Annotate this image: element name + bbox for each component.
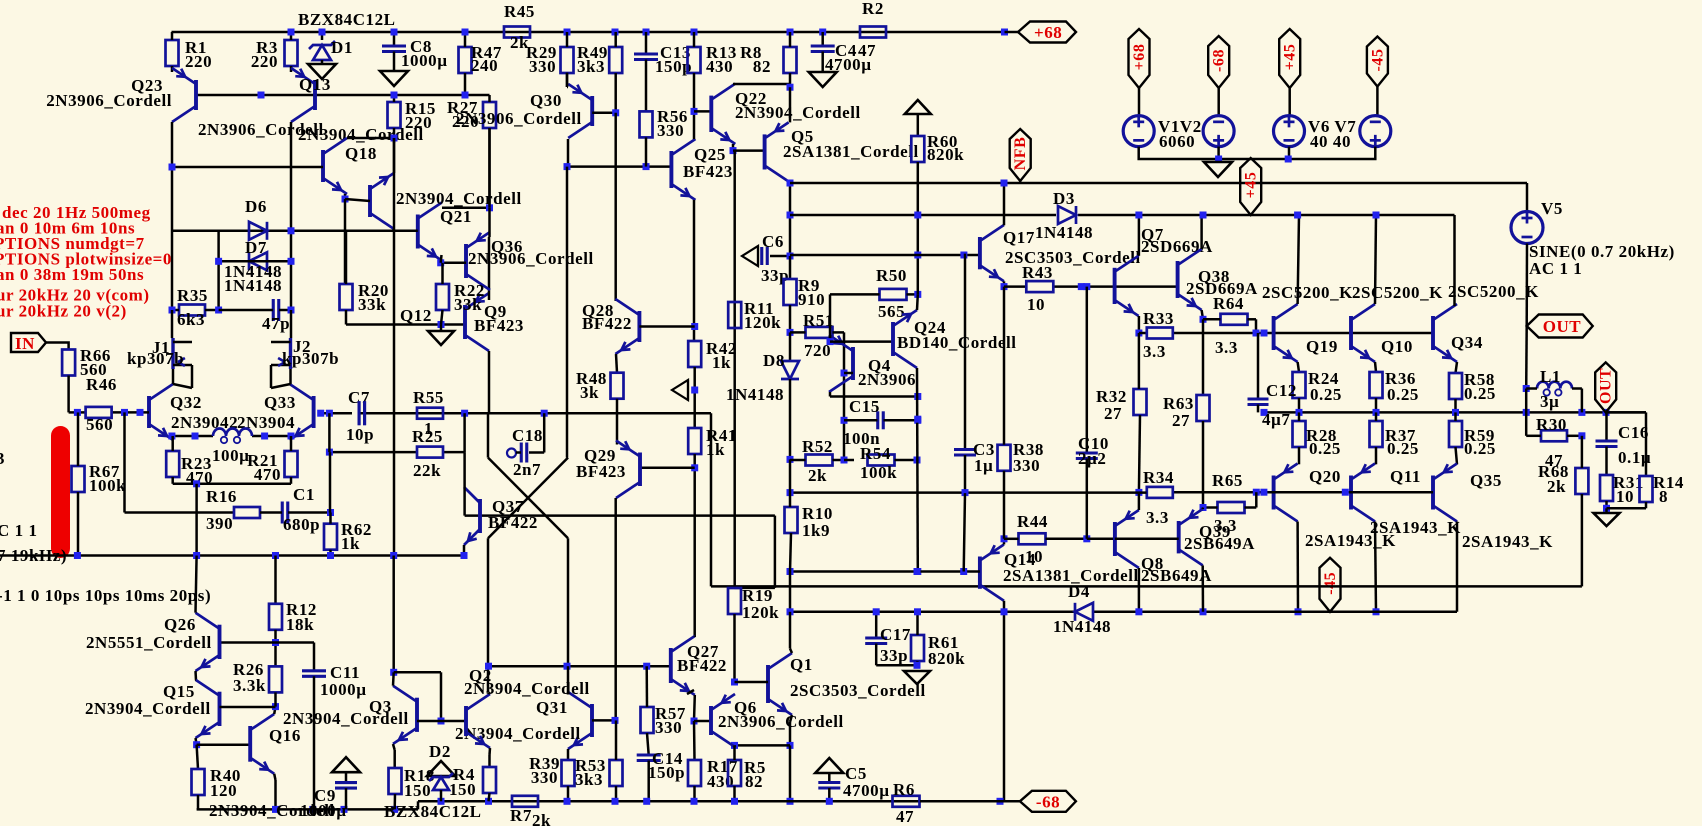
svg-text:C6: C6 [762,232,784,251]
resistor R53 [610,760,623,786]
wire R29 to Q30 emitter [567,86,568,89]
wire Q36 base [441,262,466,265]
svg-text:430: 430 [707,772,734,791]
inductor 100u between sources [213,429,252,437]
svg-text:0.1µ: 0.1µ [1618,448,1651,467]
svg-text:2k: 2k [532,811,551,826]
wire IN to R66 [46,343,69,350]
resistor R35 [179,305,205,316]
transistor Q8 2SB649A [1113,522,1117,556]
sources bottom wire [1139,147,1376,159]
capacitor C7 [357,401,360,425]
wire x615 down to Q28 [614,113,617,301]
wire Q18 emitter down [344,194,347,199]
junction R67 top [74,409,81,416]
svg-text:C17: C17 [880,625,911,644]
svg-text:120k: 120k [742,603,779,622]
svg-text:2SA1943_K: 2SA1943_K [1462,532,1553,551]
svg-text:330: 330 [1013,456,1040,475]
resistor R48 [611,373,624,399]
junction [564,163,571,170]
svg-text:2N3904_Cordell: 2N3904_Cordell [85,699,211,718]
junction tail [193,480,200,487]
wire Q27 collector [693,635,696,638]
resistor R14 [1640,476,1653,502]
wire Q22 base [694,110,711,113]
svg-text:Q18: Q18 [345,144,377,163]
wire V5 down [1525,244,1528,327]
svg-text:D6: D6 [245,197,267,216]
svg-text:Q17: Q17 [1003,228,1035,247]
svg-text:3.3: 3.3 [1143,342,1166,361]
svg-text:-45: -45 [1369,49,1386,72]
ground below Q12 row [440,325,443,332]
transistor Q2 2N3904 [464,706,468,736]
wire Q36 to Q9 [488,237,491,293]
transistor Q28 BF422 [637,311,641,342]
transistor Q1 2SC3503 [766,665,770,703]
svg-text:22k: 22k [413,461,441,480]
-68 flag vertical [1208,36,1229,88]
svg-text:Q21: Q21 [440,207,472,226]
svg-text:1k: 1k [706,440,725,459]
wire feedback bus corner x=711 [710,413,713,586]
bottom bus2 y=809.4 [197,808,418,811]
resistor R66 [62,350,75,376]
wire Q4 collector [829,392,832,397]
ground below C8 [380,71,408,86]
svg-text:R14: R14 [1653,473,1684,492]
svg-text:470: 470 [254,465,281,484]
ground below R61 [904,671,930,684]
+68 flag [1001,29,1008,36]
junction R54 right [914,457,921,464]
wire x568 lower [567,538,570,666]
diode D2 zener with ground [427,761,455,776]
resistor R56 [640,111,653,137]
diode D3 [1058,206,1076,224]
svg-text:R52: R52 [802,437,833,456]
wire Q16 emitter [274,774,275,780]
wire R52 to R54 [844,459,854,462]
junction R34 left [1135,489,1142,496]
svg-text:OUT: OUT [1543,317,1582,336]
wire y=167 mid rail [567,165,671,168]
svg-text:R46: R46 [86,375,117,394]
ground below sources [1204,162,1232,177]
wire Q1 emitter [790,715,792,722]
junction D7 right [288,258,295,265]
svg-text:27: 27 [1172,411,1190,430]
resistor R16 [234,507,260,518]
svg-text:2N3904_Cordell: 2N3904_Cordell [396,189,522,208]
svg-text:240: 240 [471,56,498,75]
junction C6 [787,253,794,260]
transistor Q6 2N3906 PNP [709,706,713,735]
wire Q10 collector [1375,215,1376,304]
transistor Q32 [147,396,151,428]
svg-text:R33: R33 [1143,309,1174,328]
svg-text:3: 3 [0,449,5,468]
junction D7 left [215,258,222,265]
junction R53 top [612,717,619,724]
resistor R6 [893,796,920,807]
wire x393 long vertical [393,143,396,556]
resistor R50 [880,289,907,300]
junction [787,742,794,749]
capacitor C4 [821,32,824,46]
transistor Q11 2SA1943 [1349,476,1353,510]
svg-text:2k: 2k [808,466,827,485]
svg-text:L1: L1 [1540,367,1561,386]
junction rail215 [1135,212,1142,219]
svg-text:33k: 33k [358,295,386,314]
junction Q6 base [691,718,698,725]
bottom bus right y=801.3 [418,800,1000,803]
junction R50 right [914,291,921,298]
wire Q28 base [639,325,694,328]
wire Q39 emitter [1201,508,1204,510]
capacitor C3 [964,254,967,450]
wire Q9 base row [441,323,465,326]
svg-text:+45: +45 [1243,172,1260,199]
-45 flag bottom [1320,558,1341,612]
svg-text:330: 330 [531,768,558,787]
svg-text:1k9: 1k9 [802,521,830,540]
resistor R65 [1218,502,1245,513]
svg-text:150p: 150p [648,763,685,782]
resistor R42 [688,341,701,367]
resistor R36 [1370,372,1383,398]
wire Q14 emitter [1003,539,1006,545]
resistor R19 [728,588,741,614]
capacitor C11 [302,669,326,672]
svg-text:Q1: Q1 [790,655,813,674]
svg-text:Q11: Q11 [1390,467,1421,486]
svg-text:330: 330 [655,718,682,737]
svg-text:kp307b: kp307b [127,349,184,368]
junction R26 bottom [272,703,279,710]
transistor Q19 2SC5200 [1272,316,1276,350]
resistor R51 [806,327,833,338]
resistor R21 [285,451,298,477]
wire Q23 collector down [171,122,174,310]
junction R64 left [1200,316,1207,323]
zener diode D1 [321,32,324,40]
svg-text:3k: 3k [580,383,599,402]
resistor R2 [860,27,886,38]
svg-text:R35: R35 [177,286,208,305]
svg-text:18k: 18k [286,615,314,634]
svg-text:BF422: BF422 [488,513,538,532]
wire Q31 base [592,719,615,722]
svg-text:D2: D2 [429,742,451,761]
svg-text:R65: R65 [1212,471,1243,490]
wire R41 bottom junction [693,454,696,637]
wire Q35 collector [1456,522,1459,612]
transistor Q17 2SC3503 [978,237,982,269]
wire x567 down [566,73,569,87]
wire C11 branch [276,641,315,644]
junction Q5 base [730,147,737,154]
svg-text:D8: D8 [763,351,785,370]
junction C3 top [960,252,967,259]
red probe marker [51,426,70,558]
resistor R61 [911,635,924,661]
wire R40 column [197,745,198,769]
transistor pair of Q18 [368,185,372,217]
svg-text:2SC5200_K: 2SC5200_K [1448,282,1539,301]
wire to V1 [1138,88,1141,116]
svg-text:-45: -45 [1322,572,1339,595]
svg-text:2N3904_Cordell: 2N3904_Cordell [283,709,409,728]
resistor R26 [269,666,282,692]
wire Q3 emitter [393,744,395,750]
resistor R32 [1134,389,1147,415]
svg-text:4700µ: 4700µ [843,781,890,800]
junction ground Q12 [438,321,445,328]
resistor R57 [641,707,654,733]
junction 47p right [288,307,295,314]
junction R3 top [288,29,295,36]
svg-text:2N3906_Cordell: 2N3906_Cordell [718,712,844,731]
svg-text:1000µ: 1000µ [320,680,367,699]
wire Q26 emitter to Q15 [194,671,197,680]
source V7 [1360,116,1391,147]
OUT flag 1 [1527,315,1593,338]
svg-text:D7: D7 [245,238,267,257]
resistor R39 [562,760,575,786]
wire Q16 collector [274,707,275,714]
svg-text:BF423: BF423 [683,162,733,181]
resistor R64 [1221,314,1248,325]
svg-text:3k3: 3k3 [577,57,605,76]
transistor Q29 BF423 [638,453,642,487]
rail y=586.4 NFB lower [711,585,1582,588]
svg-text:430: 430 [706,57,733,76]
junction driver row [914,252,921,259]
source V2 [1203,116,1234,147]
junction Q24 base [827,338,834,345]
resistor R3 [285,40,298,66]
wire y=230.8 bus [172,230,418,233]
svg-text:R16: R16 [206,487,237,506]
source V1 [1123,116,1154,147]
junction R8 bottom [787,84,794,91]
svg-text:2SB649A: 2SB649A [1141,566,1212,585]
svg-text:120: 120 [210,781,237,800]
svg-text:150: 150 [449,780,476,799]
svg-text:Q10: Q10 [1381,337,1413,356]
transistor Q3 2N3904 [415,698,419,732]
wire Q25 emitter down [693,200,696,341]
wire Q14 collector [1003,601,1006,802]
svg-text:2n7: 2n7 [513,460,541,479]
svg-text:10: 10 [1027,295,1045,314]
svg-text:R64: R64 [1213,294,1244,313]
transistor Q9 BF423 [463,305,467,339]
svg-text:820k: 820k [928,649,965,668]
wire Q6 collector [733,745,736,747]
resistor R18 [389,768,402,794]
svg-text:R25: R25 [412,427,443,446]
wire Q8 collector [1138,568,1141,612]
wire Q21 emitter to Q36 base [439,255,442,263]
resistor R8 [784,47,797,73]
resistor R17 [688,760,701,786]
svg-text:R7: R7 [510,806,532,825]
wire Q4 emitter [829,335,832,340]
svg-text:33p: 33p [880,646,908,665]
svg-text:Q33: Q33 [264,393,296,412]
svg-text:BZX84C12L: BZX84C12L [298,10,396,29]
wire to V2 [1217,88,1220,116]
svg-text:-1 1 0 10ps 10ps 10ms 20ps): -1 1 0 10ps 10ps 10ms 20ps) [0,586,211,605]
junction R51 left [787,329,794,336]
resistor R37 [1370,421,1383,447]
svg-text:kp307b: kp307b [282,349,339,368]
capacitor C18 [520,443,523,463]
wire Q2 base [441,720,466,723]
wire Q22 collector to R8 [733,83,790,86]
wire Q9 emitter chain x488 [488,293,491,300]
emitter row Q32/Q33 [172,435,213,438]
junction [1373,212,1380,219]
svg-text:R50: R50 [876,266,907,285]
svg-text:565: 565 [878,302,905,321]
svg-text:2SA1381_Cordell: 2SA1381_Cordell [783,142,919,161]
wire Q5 collector down rails [789,182,792,257]
resistor R13 [688,47,701,73]
svg-text:2SC5200_K: 2SC5200_K [1262,283,1353,302]
junction arrow port [691,387,698,394]
svg-text:2N3904_Cordell: 2N3904_Cordell [298,125,424,144]
resistor R68 [1575,468,1588,494]
wire R51 right down [843,332,846,460]
Q14 base rail y=571.5 [790,570,980,573]
IN flag [11,333,46,352]
resistor R49 [609,47,622,73]
junction R15 top [391,92,398,99]
capacitor C6 [760,247,763,265]
svg-text:C9: C9 [314,786,336,805]
wire Q39 base [1115,538,1179,541]
junction Q28 base [691,323,698,330]
wire R16 branch [123,412,126,512]
junction C15 right [914,417,921,424]
transistor Q22 NPN [709,96,713,132]
junction [1200,212,1207,219]
junction R13 top [691,29,698,36]
wire R20 bottom row [345,310,348,325]
transistor Q15 2N3904 [218,692,222,726]
+45 flag vertical [1279,29,1300,88]
wire Q37 emitter [463,545,466,556]
junction C8 top [391,29,398,36]
wire second rail y=95 [196,94,490,97]
wire Q15 base [220,706,276,709]
capacitor C12 [1257,333,1260,399]
svg-text:2SC5200_K: 2SC5200_K [1352,283,1443,302]
VAS emitter row y=286.6 [1004,285,1027,288]
wire Q16 base [197,743,251,746]
wire input row y=412 [77,411,85,414]
junction [1295,608,1302,615]
transistor Q7 2SD669A [1113,268,1117,304]
svg-text:3.3: 3.3 [1146,508,1169,527]
wire to R17 [693,721,696,760]
wire feedback row y=413 [321,412,711,415]
resistor R30 [1541,430,1567,441]
resistor R45 [504,27,530,38]
junction Q3/Q2 base [438,718,445,725]
svg-text:R30: R30 [1536,415,1567,434]
junction R29 top [564,29,571,36]
junction R8 top [787,29,794,36]
resistor R11 [728,302,741,328]
transistor Q26 2N5551 [218,625,222,659]
svg-text:220: 220 [185,52,212,71]
junction D6 right [288,227,295,234]
+68 flag vertical [1129,29,1150,88]
svg-text:Q13: Q13 [299,75,331,94]
rail y=215 [790,214,1056,217]
svg-text:R6: R6 [893,780,915,799]
transistor Q37 BF422 [478,499,482,533]
svg-text:0.25: 0.25 [1310,385,1342,404]
svg-text:Q32: Q32 [170,393,202,412]
resistor R63 [1197,395,1210,421]
wire emitter row to R5 [735,744,791,747]
wire R25 row [329,451,417,454]
junction C4 top [819,29,826,36]
wire Q29 emitter down to Q31 base [614,498,617,720]
ground below R31 [1605,508,1608,513]
junction R65 left [1200,504,1207,511]
svg-text:R43: R43 [1022,263,1053,282]
junction base rail [258,92,265,99]
resistor R55 [417,408,443,419]
wire Q30 base [592,112,616,115]
svg-text:390: 390 [206,514,233,533]
svg-text:+68: +68 [1131,44,1148,71]
wire to V6 [1288,88,1291,116]
wire x735 from Q5 base [733,151,736,588]
wire Q27 emitter [693,695,696,721]
wire V5 to L1 row [1525,326,1528,389]
transistor Q39 2SB649A [1177,521,1181,553]
svg-text:C12: C12 [1266,381,1297,400]
wire Q5 emitter up to R8 [789,87,792,122]
wire Q9 collector down [488,351,491,413]
svg-text:V5: V5 [1541,199,1563,218]
svg-text:1000µ: 1000µ [401,51,448,70]
svg-text:0.25: 0.25 [1464,384,1496,403]
transistor Q4 PNP 2N3906 [851,347,855,380]
transistor Q18 NPN [321,150,325,182]
svg-text:2N3904_Cordell: 2N3904_Cordell [464,679,590,698]
resistor R60 [917,114,920,136]
capacitor 47p C2 [272,299,275,321]
junction Q30 base [612,109,619,116]
junction Q26 base [272,639,279,646]
wire Q32 collector to J1 [172,369,175,384]
transistor Q25 BF423 PNP [669,151,673,188]
svg-text:560: 560 [86,415,113,434]
vertical x330 [328,413,331,452]
wire Q15 emitter [196,738,197,745]
junction x489 [486,204,493,211]
